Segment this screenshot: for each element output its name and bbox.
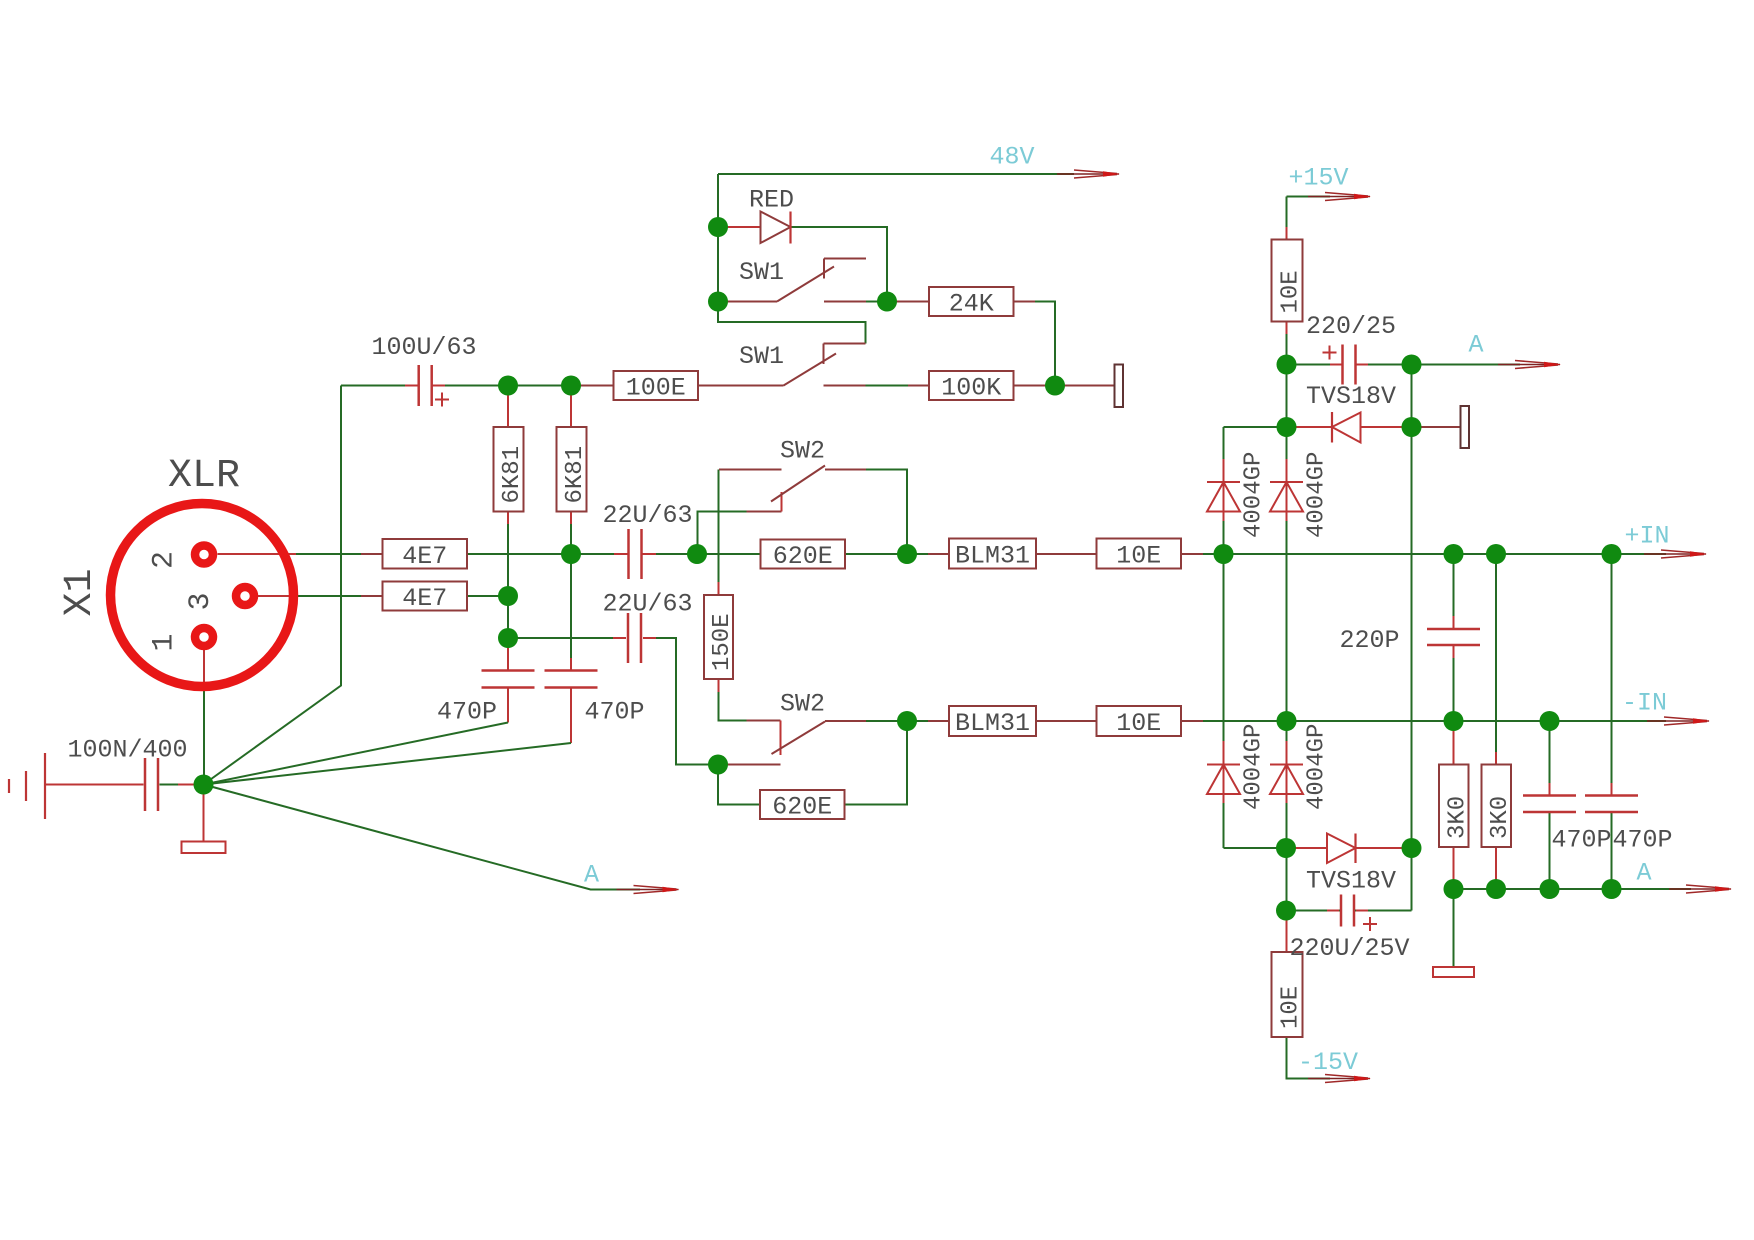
wire SW2 upper right contact to 620E out: [866, 470, 907, 555]
wire 3K0b column: [1495, 554, 1497, 765]
pin stub 24K left: [887, 301, 929, 303]
resistor 24K: [929, 287, 1014, 319]
wire 220U row left: [1286, 910, 1340, 912]
ferrite bead BLM31 b: [949, 706, 1036, 738]
wire 470Pb diagonal: [204, 743, 572, 785]
10E top pin b: [1286, 322, 1288, 335]
svg-text:+IN: +IN: [1625, 522, 1670, 551]
wire row1 down to 470Pb: [570, 554, 572, 671]
150E top pin: [718, 582, 720, 595]
svg-text:BLM31: BLM31: [955, 542, 1030, 571]
arrow A upper: [1498, 361, 1561, 369]
svg-text:220/25: 220/25: [1306, 312, 1396, 341]
junction 620Eb out: [897, 711, 917, 731]
svg-text:4E7: 4E7: [402, 542, 447, 571]
pin stub 100E left: [581, 385, 614, 387]
resistor 10E top: [1272, 240, 1305, 322]
wire SW2 lower out to BLM31: [866, 720, 949, 722]
wire A right row: [1454, 888, 1692, 890]
resistor 10E a: [1097, 539, 1182, 571]
wire SW2 upper pole: [698, 512, 747, 555]
junction A 3K0a: [1444, 879, 1464, 899]
svg-text:SW2: SW2: [780, 690, 825, 719]
wire 220U to 10E bottom: [1286, 911, 1288, 953]
junction 100U/6K81a: [498, 376, 518, 396]
junction TVS low right: [1402, 838, 1422, 858]
arrow 48V: [1057, 170, 1120, 178]
svg-text:48V: 48V: [990, 143, 1035, 172]
wire 6K81a to rows: [507, 512, 509, 639]
wire 22U to node: [643, 553, 698, 555]
capacitor 470P b: [545, 671, 598, 688]
wire 470Pd bottom stub: [1611, 812, 1613, 889]
junction SW2 lower contact: [708, 755, 728, 775]
junction TVS low left: [1276, 838, 1296, 858]
22Ua pin l: [614, 553, 628, 555]
junction row2 6K81a: [498, 586, 518, 606]
pin stub BLM31a left: [928, 553, 949, 555]
pin stub 100K right: [1014, 385, 1046, 387]
junction +IN 470Pd: [1602, 544, 1622, 564]
svg-text:4004GP: 4004GP: [1241, 724, 1268, 810]
diode a pin overlay: [1223, 459, 1225, 521]
pin stub BLM31b left: [928, 720, 949, 722]
svg-text:-15V: -15V: [1298, 1048, 1358, 1077]
connector X1 XLR circle: [111, 504, 294, 687]
220U pin r: [1356, 910, 1368, 912]
svg-text:620E: 620E: [772, 793, 832, 822]
svg-text:A: A: [1637, 859, 1652, 888]
ground bar A: [1433, 967, 1474, 977]
junction 220/25 right: [1402, 355, 1422, 375]
junction A 3K0b: [1486, 879, 1506, 899]
220P pin overlay a: [1453, 616, 1455, 629]
wire 470Pc bottom stub: [1549, 812, 1551, 889]
junction +IN 3K0b: [1486, 544, 1506, 564]
svg-text:10E: 10E: [1278, 270, 1305, 313]
22Ub pin l: [613, 637, 626, 639]
wire 6K81a feed: [507, 386, 509, 428]
wire 48V vertical: [717, 174, 719, 322]
wire SW1 lower output to 100K: [866, 385, 930, 387]
wire A upper shaft: [1412, 364, 1521, 366]
wire TVS low cathode: [1356, 847, 1412, 849]
resistor 150E: [704, 595, 736, 679]
svg-text:470P: 470P: [1552, 826, 1612, 855]
wire 6K81b feed: [570, 386, 572, 428]
wire 220U row right: [1355, 910, 1412, 912]
junction 220/25 left: [1277, 355, 1297, 375]
svg-text:6K81: 6K81: [562, 446, 589, 504]
svg-text:SW2: SW2: [780, 437, 825, 466]
pin stub 100K left: [908, 385, 929, 387]
capacitor 220P: [1427, 629, 1480, 645]
wire node column x1411: [1411, 365, 1413, 911]
XLR pin1 wire: [203, 646, 205, 686]
wire 620Eb link: [718, 765, 760, 805]
wire 620E to BLM31: [845, 553, 949, 555]
LED RED diode: [718, 212, 791, 244]
svg-text:620E: 620E: [773, 542, 833, 571]
resistor 6K81 b: [557, 427, 590, 512]
XLR pin 2 pad: [195, 546, 213, 564]
pin stub 10Ea right: [1181, 553, 1203, 555]
svg-text:A: A: [1469, 331, 1484, 360]
wire 470Pd column: [1611, 554, 1613, 796]
junction TVS left: [1277, 417, 1297, 437]
wire +IN row: [1181, 553, 1666, 555]
svg-text:RED: RED: [749, 186, 794, 215]
svg-text:4004GP: 4004GP: [1304, 724, 1331, 810]
junction 620E out: [897, 544, 917, 564]
470Pb top pin: [570, 658, 572, 671]
svg-text:TVS18V: TVS18V: [1306, 867, 1396, 896]
XLR pin2 wire: [218, 553, 297, 555]
wire 10E bottom to -15V: [1287, 1037, 1331, 1079]
capacitor 470P c: [1523, 796, 1576, 813]
pin stub 10Eb right: [1181, 720, 1203, 722]
svg-text:22U/63: 22U/63: [603, 501, 693, 530]
wire node to terminal: [1055, 385, 1115, 387]
wire BLM31 to 10E: [1036, 553, 1097, 555]
ferrite bead BLM31 a: [949, 539, 1036, 571]
wire 470Pa diagonal: [204, 723, 509, 785]
svg-text:100K: 100K: [941, 374, 1001, 403]
wire 470Pa to XLR gnd: [507, 688, 509, 723]
wire 3K0a bottom stub: [1453, 847, 1455, 889]
switch SW2 lower: [718, 721, 866, 765]
junction 48V/LED: [708, 217, 728, 237]
wire 470Pa stub: [507, 638, 509, 671]
wire diode column x1286: [1286, 427, 1288, 911]
wire 22Ub to SW2 lower contact: [643, 638, 718, 765]
wire 620Eb out: [845, 721, 908, 805]
svg-text:10E: 10E: [1278, 986, 1305, 1029]
svg-text:SW1: SW1: [739, 342, 784, 371]
junction XLR ground: [194, 775, 214, 795]
wire TVS node left: [1224, 426, 1287, 428]
junction 24K/100K node: [1045, 376, 1065, 396]
junction -IN 470Pc: [1540, 711, 1560, 731]
wire TVS low anode stub: [1286, 847, 1327, 849]
svg-text:470P: 470P: [585, 698, 645, 727]
wire phantom corner drop: [204, 386, 342, 785]
junction SW1 out: [877, 292, 897, 312]
wire 220/25 node down: [1286, 365, 1288, 428]
svg-text:100E: 100E: [626, 374, 686, 403]
wire A left diagonal: [204, 785, 641, 890]
terminal pad 1: [1115, 365, 1124, 408]
diode b pin overlay: [1286, 459, 1288, 521]
wire 3K0a top stub: [1453, 721, 1455, 765]
150E bottom pin: [718, 679, 720, 692]
svg-text:220P: 220P: [1340, 626, 1400, 655]
switch SW1 upper: [718, 259, 866, 302]
wire 100U row right: [432, 385, 614, 387]
svg-text:SW1: SW1: [739, 258, 784, 287]
svg-text:3: 3: [184, 592, 218, 610]
resistor 4E7 a: [383, 539, 468, 571]
capacitor 220U/25V: [1341, 895, 1354, 927]
capacitor 470P a: [482, 671, 535, 688]
arrow A left: [617, 886, 680, 894]
capacitor 22U/63 a: [629, 529, 642, 579]
wire BLM31b to 10Eb: [1036, 720, 1097, 722]
wire 220P top stub: [1453, 554, 1455, 629]
wire SW2 upper left contact drop to 150E: [718, 470, 720, 596]
resistor 4E7 b: [383, 582, 468, 614]
junction -IN 3K0a: [1444, 711, 1464, 731]
capacitor 220/25: [1343, 345, 1356, 385]
diode TVS18V lower: [1327, 834, 1356, 864]
wire 470Pc top stub: [1549, 721, 1551, 796]
wire 100K output to node: [1014, 385, 1056, 387]
arrow -IN: [1647, 717, 1710, 725]
XLR pin3 wire: [255, 595, 293, 597]
wire node to 620E: [697, 553, 761, 555]
wire node to terminal2: [1412, 426, 1461, 428]
svg-text:TVS18V: TVS18V: [1306, 382, 1396, 411]
svg-text:10E: 10E: [1116, 542, 1161, 571]
wire 24K output down: [1014, 302, 1056, 386]
svg-text:10E: 10E: [1116, 709, 1161, 738]
resistor 3K0 a: [1439, 765, 1471, 848]
wire diode column x1223: [1223, 427, 1225, 848]
wire A gnd drop: [1453, 889, 1455, 967]
diode TVS18V upper: [1332, 412, 1361, 443]
6K81a bottom pin: [507, 512, 509, 525]
pin stub 4E7b: [361, 595, 383, 597]
svg-text:3K0: 3K0: [1487, 796, 1514, 839]
junction row1 6K81b: [561, 544, 581, 564]
capacitor 100N/400: [145, 758, 158, 811]
diode 4004GP d: [1270, 765, 1303, 795]
wire XLR pin1 down: [203, 646, 205, 785]
svg-text:3K0: 3K0: [1444, 796, 1471, 839]
wire LED cathode to SW1 right: [791, 227, 888, 302]
svg-text:-IN: -IN: [1622, 689, 1667, 718]
100U pin l: [405, 385, 419, 387]
10E top pins: [1286, 227, 1288, 240]
capacitor 470P d: [1585, 796, 1638, 813]
junction 100U/6K81b: [561, 376, 581, 396]
pin stub 24K right: [1014, 301, 1036, 303]
junction +IN diode a: [1214, 544, 1234, 564]
svg-text:XLR: XLR: [168, 454, 240, 499]
220/25 pin r: [1356, 364, 1369, 366]
wire TVS cathode to node: [1361, 426, 1412, 428]
pin stub 100E right: [698, 385, 720, 387]
wire 220/25 right: [1355, 364, 1412, 366]
XLR pin 3 pad: [236, 587, 254, 605]
wire SW1 upper output to 24K: [866, 301, 929, 303]
svg-text:6K81: 6K81: [499, 446, 526, 504]
220P pin overlay b: [1453, 645, 1455, 658]
junction row1 22U: [687, 544, 707, 564]
wire 470Pb stub: [570, 688, 572, 744]
3K0b top pin: [1495, 752, 1497, 765]
svg-text:BLM31: BLM31: [955, 709, 1030, 738]
diode c pin overlay: [1223, 741, 1225, 803]
470Pd pin overlay: [1611, 783, 1613, 796]
resistor 620E a: [761, 540, 846, 572]
wire 4E7 to node row2: [467, 595, 508, 597]
wire XLR pin3 to 4E7: [255, 595, 383, 597]
resistor 100E: [614, 371, 699, 403]
220/25 pin l: [1330, 364, 1343, 366]
svg-text:4004GP: 4004GP: [1304, 452, 1331, 538]
junction A 470Pc: [1540, 879, 1560, 899]
junction 48V/SW1: [708, 292, 728, 312]
wire row 638: [508, 637, 626, 639]
arrow +15V: [1308, 193, 1371, 201]
svg-text:A: A: [584, 861, 599, 890]
arrow -15V: [1308, 1075, 1371, 1083]
svg-text:4E7: 4E7: [402, 584, 447, 613]
wire 4E7 to 22U: [467, 553, 628, 555]
plus 220U/25V: [1363, 917, 1377, 931]
resistor 3K0 b: [1482, 765, 1514, 848]
wire -IN row: [1181, 720, 1666, 722]
switch SW2 upper: [719, 466, 866, 512]
wire 100U row left: [341, 385, 419, 387]
wire TVS anode stub: [1287, 426, 1333, 428]
svg-text:150E: 150E: [709, 613, 736, 671]
svg-text:1: 1: [148, 633, 182, 651]
svg-text:470P: 470P: [437, 698, 497, 727]
470Pc pin overlay: [1549, 783, 1551, 796]
junction +IN 220P: [1444, 544, 1464, 564]
earth symbol: [9, 753, 45, 819]
22Ua pin r: [643, 553, 657, 555]
plus 100U/63: [435, 393, 449, 407]
wire 6K81b to row1: [570, 512, 572, 555]
svg-text:2: 2: [148, 551, 182, 569]
capacitor 100U/63: [419, 365, 432, 406]
6K81b bottom pin: [570, 512, 572, 525]
XLR pin 1 pad: [195, 628, 213, 646]
wire 220/25 left: [1287, 364, 1344, 366]
wire 3K0b bottom stub: [1495, 847, 1497, 889]
resistor 6K81 a: [494, 427, 527, 512]
22Ub pin r: [643, 637, 656, 639]
svg-text:+15V: +15V: [1289, 164, 1349, 193]
wire TVS low row left: [1224, 847, 1287, 849]
wire 100N left: [160, 784, 204, 786]
diode 4004GP a: [1207, 482, 1240, 512]
diode 4004GP c: [1207, 765, 1240, 795]
junction TVS right: [1402, 417, 1422, 437]
wire XLR pin2 to 4E7: [218, 553, 383, 555]
resistor 620E b: [760, 790, 845, 822]
switch SW1 lower: [698, 344, 866, 386]
svg-text:470P: 470P: [1613, 826, 1673, 855]
diode 4004GP b: [1270, 482, 1303, 512]
resistor 100K: [929, 371, 1014, 403]
100U pin r: [432, 385, 445, 387]
resistor 10E bottom: [1272, 952, 1305, 1037]
220U pin l: [1327, 910, 1339, 912]
capacitor 22U/63 b: [628, 613, 641, 663]
wire +15V to 10E: [1286, 197, 1288, 240]
wire SW1 linkage: [718, 302, 866, 344]
pin stub 4E7a: [361, 553, 383, 555]
wire 150E to SW2 lower pole: [719, 679, 747, 721]
terminal pad 2: [1461, 406, 1470, 448]
100N pin r: [178, 784, 194, 786]
svg-text:220U/25V: 220U/25V: [1290, 934, 1410, 963]
svg-text:100U/63: 100U/63: [372, 333, 477, 362]
arrow +IN: [1644, 550, 1707, 558]
wire 10E to 220/25 node: [1286, 322, 1288, 365]
svg-text:100N/400: 100N/400: [68, 736, 188, 765]
ground bar XLR: [182, 842, 226, 854]
wire XLR gnd stub: [203, 785, 205, 842]
diode d pin overlay: [1286, 741, 1288, 803]
junction A 470Pd: [1602, 879, 1622, 899]
junction 220U left: [1276, 901, 1296, 921]
wire 220P bottom stub: [1453, 645, 1455, 721]
470Pa top pin: [507, 638, 509, 671]
wire 100N to earth: [45, 784, 144, 786]
wire +15V corner: [1287, 196, 1331, 198]
svg-text:4004GP: 4004GP: [1241, 452, 1268, 538]
svg-text:X1: X1: [58, 568, 103, 616]
junction -IN diode b: [1277, 711, 1297, 731]
arrow A right: [1669, 885, 1732, 893]
wire 48V horizontal: [718, 173, 1074, 175]
resistor 10E b: [1097, 706, 1182, 738]
junction row 638: [498, 628, 518, 648]
svg-text:24K: 24K: [949, 290, 994, 319]
svg-text:22U/63: 22U/63: [603, 590, 693, 619]
plus 220/25: [1323, 346, 1337, 360]
